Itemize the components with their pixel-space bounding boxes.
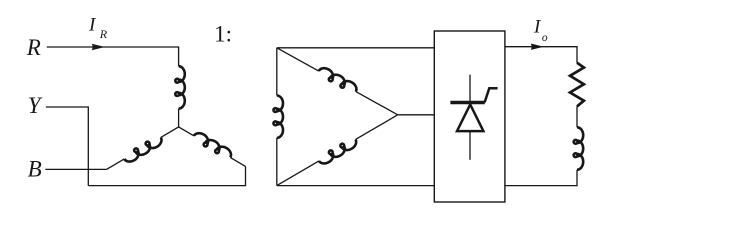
inductor L3 (wye Y-phase winding, lower-right leg) bbox=[179, 127, 246, 166]
svg-text:R: R bbox=[26, 35, 41, 60]
wire output positive (box to load top) bbox=[505, 47, 577, 63]
converter box (thyristor bridge) bbox=[434, 31, 505, 202]
resistor R_load bbox=[570, 63, 584, 107]
wire thyristor cathode lead bbox=[469, 131, 471, 160]
svg-text:Y: Y bbox=[28, 93, 43, 118]
wire delta apex to converter box bbox=[398, 114, 435, 116]
wire R phase (R to wye top) bbox=[47, 47, 179, 66]
inductor L2 (wye B-phase winding, lower-left leg) bbox=[107, 127, 179, 169]
wire thyristor anode lead bbox=[469, 75, 471, 105]
wire delta top corner to converter box bbox=[277, 47, 435, 49]
inductor L6 (delta bottom winding) bbox=[277, 115, 398, 186]
svg-text:IR: IR bbox=[88, 15, 108, 42]
current arrow I_o bbox=[531, 44, 544, 50]
current arrow I_R bbox=[92, 44, 105, 50]
thyristor Q1 triangle (anode, pointing up) bbox=[457, 104, 483, 131]
thyristor Q1 cathode bar bbox=[450, 101, 484, 105]
svg-text:B: B bbox=[28, 157, 42, 182]
thyristor Q1 gate lead bbox=[485, 88, 498, 102]
wire between resistor and inductor bbox=[576, 106, 578, 127]
node star point (wye neutral) bbox=[178, 126, 179, 127]
svg-text:Io: Io bbox=[533, 17, 548, 44]
wire Y phase (Y down to bottom rail) bbox=[46, 107, 89, 186]
inductor L4 (delta left winding) bbox=[273, 48, 283, 186]
inductor L5 (delta top winding) bbox=[277, 48, 398, 115]
svg-text:1:: 1: bbox=[214, 22, 232, 47]
wire B phase bbox=[45, 168, 106, 170]
wire delta bottom corner to converter box bbox=[277, 185, 435, 187]
wire wye right leg to bottom rail bbox=[88, 166, 245, 185]
wire output return (load bottom to box) bbox=[505, 170, 577, 186]
inductor L1 (wye R-phase winding) bbox=[175, 66, 185, 108]
wire wye top lead to star point bbox=[178, 109, 180, 127]
inductor L_load bbox=[574, 127, 584, 169]
